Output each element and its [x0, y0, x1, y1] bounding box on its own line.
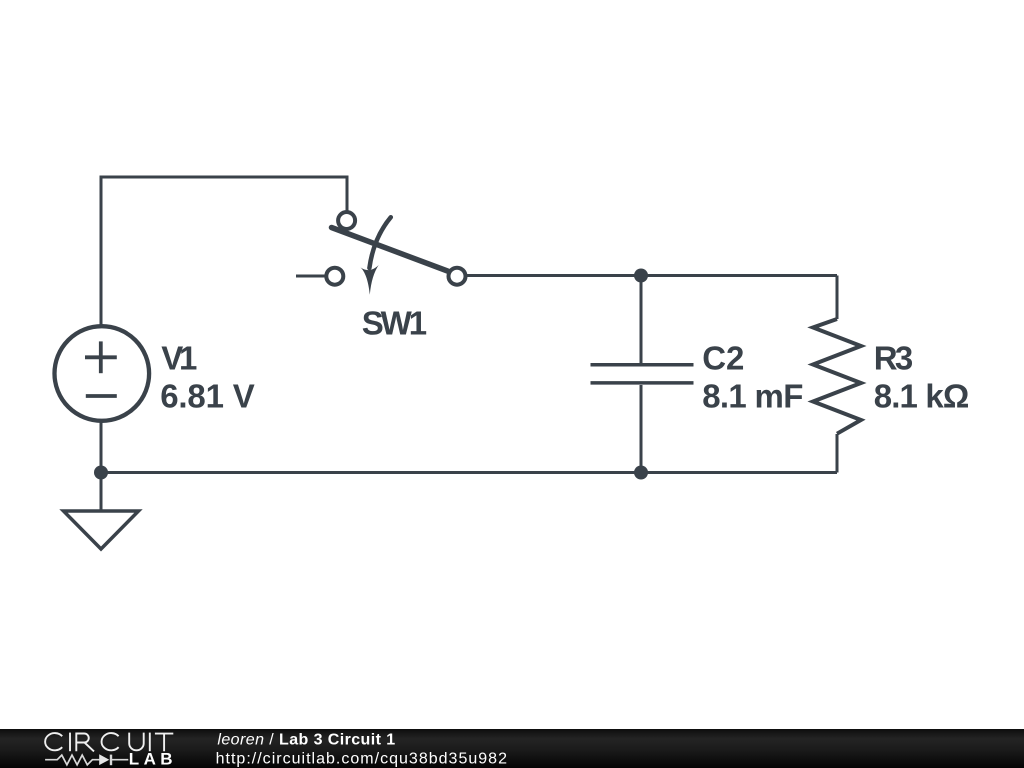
svg-text:6.81 V: 6.81 V: [160, 378, 255, 415]
svg-text:SW1: SW1: [362, 304, 427, 341]
svg-text:V1: V1: [161, 340, 197, 377]
svg-text:C2: C2: [702, 340, 744, 377]
svg-text:R3: R3: [874, 340, 913, 377]
svg-text:8.1 kΩ: 8.1 kΩ: [874, 378, 970, 415]
svg-text:leoren / Lab 3 Circuit 1: leoren / Lab 3 Circuit 1: [217, 732, 395, 749]
svg-text:LAB: LAB: [129, 750, 177, 768]
svg-text:http://circuitlab.com/cqu38bd3: http://circuitlab.com/cqu38bd35u982: [216, 751, 508, 768]
svg-text:8.1 mF: 8.1 mF: [702, 378, 803, 415]
